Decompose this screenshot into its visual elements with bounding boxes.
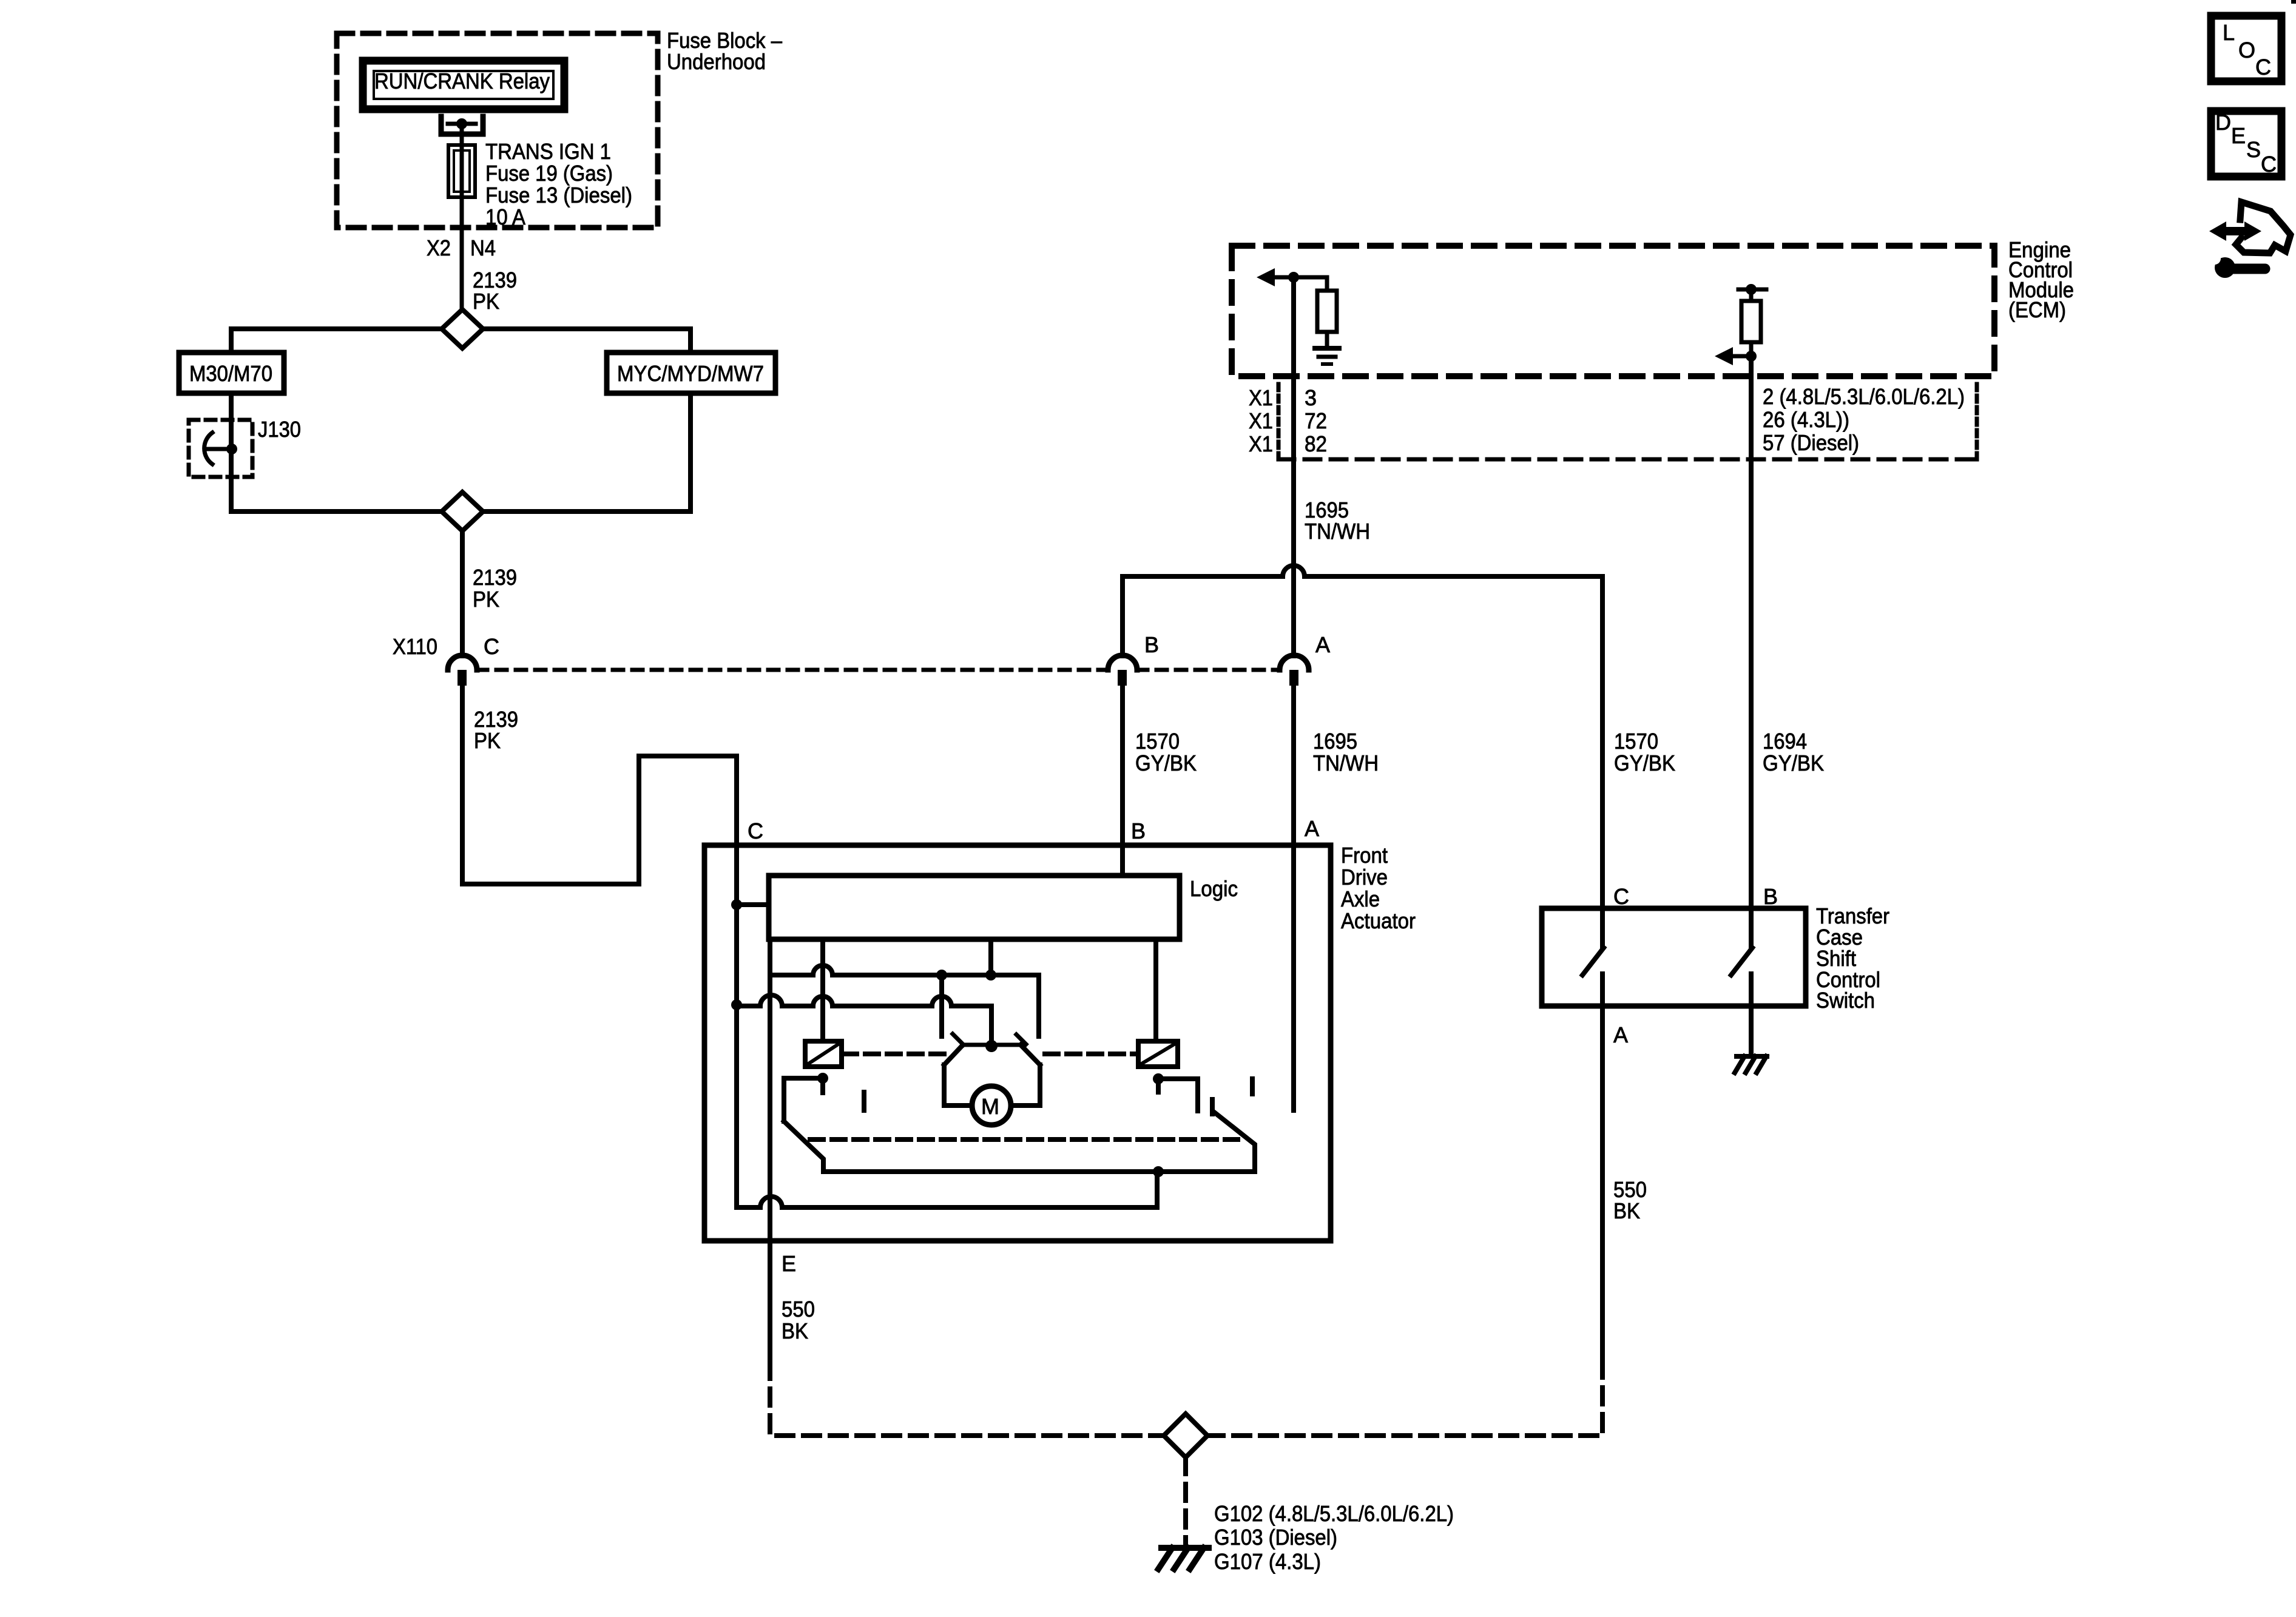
- logic output wires: [820, 939, 825, 1041]
- wire 2139 PK to X110: [460, 531, 465, 656]
- svg-text:1570: 1570: [1614, 729, 1658, 754]
- svg-text:C: C: [484, 634, 499, 659]
- contact common bus y1931: [823, 1169, 1255, 1174]
- switch contact left: [1600, 908, 1605, 947]
- svg-text:Actuator: Actuator: [1341, 908, 1416, 933]
- switch box: [1542, 908, 1806, 1006]
- svg-text:GY/BK: GY/BK: [1614, 751, 1675, 775]
- chassis ground G102/G103/G107: [1161, 1545, 1209, 1551]
- svg-text:PK: PK: [474, 728, 501, 753]
- svg-text:2 (4.8L/5.3L/6.0L/6.2L): 2 (4.8L/5.3L/6.0L/6.2L): [1763, 384, 1965, 409]
- svg-text:J130: J130: [258, 417, 301, 442]
- svg-text:C: C: [1613, 884, 1629, 909]
- svg-text:BK: BK: [1613, 1198, 1640, 1223]
- harness dashed line X110: [477, 668, 1108, 672]
- svg-text:X1: X1: [1249, 408, 1273, 433]
- splice diamond S2: [442, 492, 483, 531]
- svg-text:B: B: [1131, 819, 1146, 843]
- svg-text:Front: Front: [1341, 843, 1388, 868]
- svg-text:TRANS IGN 1: TRANS IGN 1: [485, 139, 611, 164]
- svg-text:PK: PK: [473, 289, 499, 314]
- service icon arrows and wrench: [2207, 202, 2291, 278]
- svg-text:10 A: 10 A: [485, 204, 525, 229]
- svg-text:A: A: [1305, 816, 1319, 841]
- actuator box: [704, 845, 1331, 1241]
- relay K2 contact: [1153, 1073, 1164, 1084]
- svg-text:X1: X1: [1249, 431, 1273, 456]
- transmission box M30/M70: [179, 353, 284, 393]
- svg-text:72: 72: [1305, 408, 1327, 433]
- svg-text:D: D: [2215, 110, 2231, 135]
- svg-text:X1: X1: [1249, 385, 1273, 410]
- wire 550 BK switch A to splice: [1600, 1006, 1605, 1357]
- relay K1 contact: [817, 1073, 828, 1084]
- mech link dashed coil K1 to motor contacts: [843, 1052, 944, 1056]
- svg-text:X110: X110: [393, 634, 437, 659]
- svg-text:O: O: [2238, 38, 2255, 62]
- svg-text:E: E: [2231, 123, 2246, 148]
- wire fuse to splice S1: [460, 197, 464, 311]
- svg-text:G103 (Diesel): G103 (Diesel): [1214, 1525, 1337, 1550]
- motor reversing contacts: [985, 1040, 998, 1052]
- svg-text:G107 (4.3L): G107 (4.3L): [1214, 1549, 1321, 1574]
- splice diamond ground: [1164, 1414, 1207, 1457]
- fixed terminal tick K2: [1250, 1079, 1255, 1094]
- svg-text:TN/WH: TN/WH: [1305, 519, 1370, 544]
- svg-text:GY/BK: GY/BK: [1763, 751, 1824, 775]
- relay RUN/CRANK Relay box: [363, 61, 564, 109]
- svg-text:TN/WH: TN/WH: [1313, 751, 1379, 775]
- svg-text:1570: 1570: [1135, 729, 1180, 754]
- wire left branch: [229, 329, 234, 511]
- wire 550 BK pin E: [768, 1241, 772, 1359]
- svg-text:RUN/CRANK Relay: RUN/CRANK Relay: [374, 69, 550, 93]
- dashed stub to ground: [1183, 1457, 1188, 1544]
- svg-text:Logic: Logic: [1190, 876, 1238, 901]
- relay coil K2: [1138, 1041, 1178, 1067]
- svg-text:Fuse 13 (Diesel): Fuse 13 (Diesel): [485, 183, 632, 208]
- mech link dashed motor contacts to coil K2: [1045, 1052, 1137, 1056]
- wire 1570 GY/BK bus with hop over 1695: [1123, 576, 1602, 908]
- splice diamond S1: [442, 309, 483, 348]
- wire actuator pin B: [1120, 686, 1125, 876]
- splice J130 dashed box: [189, 420, 252, 477]
- svg-text:B: B: [1144, 632, 1159, 657]
- wire hop bump: [1283, 565, 1305, 576]
- svg-text:GY/BK: GY/BK: [1135, 751, 1197, 775]
- svg-text:PK: PK: [473, 587, 499, 612]
- mech link dashed lower: [810, 1137, 1238, 1142]
- splice J130 symbol: [204, 433, 212, 464]
- svg-text:M30/M70: M30/M70: [189, 361, 272, 386]
- svg-text:C: C: [2255, 55, 2271, 79]
- svg-text:A: A: [1613, 1022, 1628, 1047]
- svg-text:B: B: [1763, 884, 1778, 909]
- svg-text:3: 3: [1305, 385, 1317, 410]
- relay output contact symbol: [441, 116, 483, 134]
- switch ground stub: [1749, 1006, 1754, 1055]
- wire bottom bus: [231, 509, 690, 514]
- LOC icon: [2211, 16, 2281, 81]
- svg-text:M: M: [981, 1094, 999, 1119]
- svg-text:G102 (4.8L/5.3L/6.0L/6.2L): G102 (4.8L/5.3L/6.0L/6.2L): [1214, 1501, 1454, 1526]
- pin C return bus y1990 with hop over E: [737, 1172, 1157, 1207]
- svg-text:82: 82: [1305, 431, 1327, 456]
- logic box: [769, 876, 1180, 939]
- page corner mark: [2291, 0, 2296, 4]
- svg-text:1695: 1695: [1313, 729, 1357, 754]
- wire 1694 GY/BK from ECM pin: [1749, 356, 1754, 908]
- chassis ground at switch: [1737, 1054, 1767, 1059]
- bus C contacts y1658 with hops: [737, 1006, 991, 1046]
- wire 2139 PK below X110 jog to actuator pin C: [462, 686, 737, 884]
- svg-text:2139: 2139: [473, 565, 517, 590]
- ECM dashed box: [1232, 246, 1994, 376]
- wire 1695 TN/WH from ECM pin: [1291, 277, 1296, 656]
- svg-text:C: C: [2261, 152, 2277, 177]
- svg-text:26 (4.3L)): 26 (4.3L)): [1763, 407, 1849, 432]
- fuse TRANS IGN 1: [448, 145, 475, 197]
- svg-text:C: C: [748, 819, 763, 843]
- svg-text:A: A: [1315, 632, 1330, 657]
- ECM driver 1 low-side: [1257, 268, 1275, 286]
- svg-text:MYC/MYD/MW7: MYC/MYD/MW7: [617, 361, 764, 386]
- svg-text:57 (Diesel): 57 (Diesel): [1763, 430, 1859, 455]
- contact terminal stub left: [939, 975, 944, 1036]
- svg-text:L: L: [2223, 20, 2235, 45]
- transmission box MYC/MYD/MW7: [607, 353, 775, 393]
- relay coil K1: [805, 1041, 842, 1067]
- svg-text:Axle: Axle: [1341, 886, 1380, 911]
- wire right branch: [688, 329, 693, 511]
- fixed terminal tick K1: [862, 1092, 866, 1110]
- svg-text:Underhood: Underhood: [667, 49, 766, 74]
- svg-text:Drive: Drive: [1341, 865, 1388, 890]
- wire pin C inside with stub to logic: [734, 845, 739, 1207]
- svg-text:X2: X2: [427, 235, 451, 260]
- wire E ground vertical: [768, 939, 772, 1241]
- wire 550 BK dashed to splice: [770, 1362, 1164, 1436]
- bus E contacts y1607 with hop: [770, 975, 1039, 1036]
- svg-text:E: E: [782, 1251, 796, 1276]
- svg-text:N4: N4: [470, 235, 496, 260]
- svg-text:1694: 1694: [1763, 729, 1807, 754]
- motor M: [972, 1086, 1011, 1125]
- svg-text:BK: BK: [782, 1318, 808, 1343]
- connector X1 dashed box: [1277, 384, 1281, 459]
- wire top bus: [231, 326, 690, 331]
- svg-text:550: 550: [782, 1297, 815, 1322]
- switch contact right: [1749, 908, 1754, 947]
- ECM internal ground: [1315, 346, 1339, 351]
- wire actuator pin A: [1291, 686, 1296, 1110]
- svg-text:Fuse 19 (Gas): Fuse 19 (Gas): [485, 161, 613, 186]
- ECM driver 2 high-side: [1738, 288, 1766, 292]
- svg-text:S: S: [2246, 137, 2261, 162]
- DESC icon: [2211, 111, 2281, 177]
- svg-text:Switch: Switch: [1816, 988, 1875, 1013]
- wire relay to fuse: [460, 124, 464, 145]
- fuse block underhood dashed box: [337, 33, 658, 228]
- svg-text:(ECM): (ECM): [2008, 297, 2066, 322]
